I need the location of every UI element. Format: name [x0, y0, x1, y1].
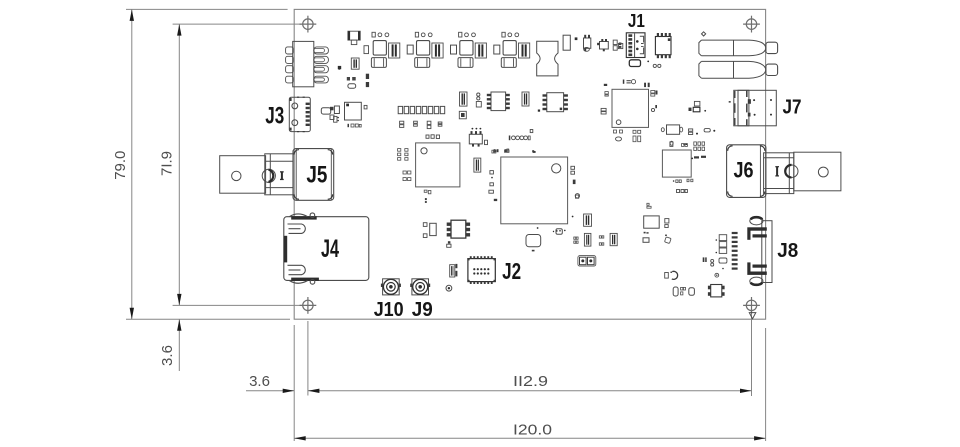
capacitor CT2: [414, 121, 418, 126]
part R10: [665, 234, 672, 243]
svg-text:J4: J4: [321, 235, 339, 263]
pads below U1: [424, 190, 431, 194]
pads left of J1: [619, 43, 622, 48]
resistor array RN1: [398, 106, 444, 113]
component below J1: [629, 60, 640, 67]
regulator U9 (SOT-23-5): [469, 128, 487, 147]
part R1: [364, 46, 369, 54]
dimension 3.6 left text: [159, 345, 176, 366]
transformer T1: [447, 220, 470, 238]
mark M4: [556, 230, 561, 232]
connector J5 plate and collar (BNC left): [220, 154, 293, 195]
pads P14: [476, 93, 481, 107]
pads P2: [347, 77, 356, 88]
pads below U2: [537, 227, 566, 234]
extension line below board-right edge: [765, 328, 767, 441]
pads left of U2: [489, 171, 497, 202]
dot below J1: [647, 61, 649, 63]
edge parts: [330, 107, 334, 120]
circle pad right of U4: [651, 108, 654, 111]
pads P3: [613, 40, 617, 50]
IC U8 (SOIC-8): [655, 33, 671, 58]
part R8: [576, 195, 579, 198]
bars B2: [644, 83, 650, 87]
mounting hole H1: [300, 16, 317, 33]
pads P8: [670, 141, 687, 145]
pads below U4 left: [614, 130, 623, 141]
capacitor C6: [584, 214, 592, 226]
dots pair: [711, 259, 714, 266]
label J2: [502, 258, 521, 284]
squares row below U3: [677, 190, 688, 193]
pads P12: [665, 219, 669, 228]
pads P9: [574, 237, 578, 243]
power cluster 3: [458, 32, 500, 67]
mark M1: [334, 116, 339, 122]
pads right of U4: [651, 91, 655, 97]
silk IO mark: [623, 80, 636, 84]
part R12: [644, 216, 660, 228]
capacitor CT3: [427, 121, 431, 128]
part R4: [321, 108, 330, 114]
svg-text:J3: J3: [265, 102, 284, 129]
pads above U1: [426, 135, 440, 139]
IC U6 (SOIC-8): [543, 93, 568, 112]
dimension 71.9 text: [159, 151, 176, 176]
part R13: [673, 287, 678, 296]
PCB board outline: [294, 9, 765, 319]
crystal Y1: [537, 41, 558, 76]
label J9: [412, 299, 433, 321]
connector CON1 (antenna jack): [699, 40, 778, 56]
dot near P1: [338, 67, 340, 69]
svg-text:I20.0: I20.0: [513, 422, 552, 439]
chip C2: [351, 40, 357, 45]
dot D3: [538, 110, 540, 112]
circle pad: [715, 273, 719, 277]
bar above U4: [604, 84, 607, 86]
dimension 120.0 line with arrows: [294, 436, 765, 440]
connector CON2 (antenna jack): [699, 61, 778, 78]
dimension 3.6 bottom line with arrow: [246, 389, 294, 393]
label J3: [265, 102, 284, 129]
marks M3: [643, 232, 649, 243]
pads P13: [681, 287, 686, 295]
extension line below board-left edge: [293, 325, 295, 441]
dot below U3: [691, 158, 693, 160]
connector J1: [626, 33, 645, 58]
marks 0I: [703, 257, 707, 262]
extension line below right mounting hole: [751, 313, 753, 396]
IC U2 (large center): [501, 157, 568, 224]
jumper JP1: [578, 256, 596, 267]
pads above U3: [670, 142, 705, 151]
transistor Q1: [584, 35, 591, 52]
part R5: [334, 106, 339, 114]
double pad below U4: [601, 108, 606, 114]
label J6: [734, 158, 754, 183]
extension line below left mounting hole: [307, 321, 309, 396]
svg-text:7I.9: 7I.9: [159, 151, 176, 176]
polarity mark below J8: [749, 313, 756, 319]
dimension 112.9 line with arrows: [308, 389, 752, 393]
pads below-left of J1: [653, 64, 661, 67]
connector J8 (HDMI): [732, 217, 772, 285]
silk marks row: [509, 136, 530, 141]
connector J7 (USB): [729, 90, 777, 126]
power cluster 4: [501, 32, 529, 67]
pads below U3: [673, 179, 693, 182]
transistor Q2: [597, 39, 608, 51]
pad bars right: [694, 156, 706, 159]
dimension 71.9 line with arrows: [177, 24, 181, 305]
inductor L2: [665, 271, 678, 279]
power cluster 2: [415, 32, 457, 67]
part R6: [364, 105, 367, 109]
connector J10 (coax jack): [381, 279, 401, 295]
capacitor CT4: [438, 122, 442, 126]
connector J6 body: [727, 145, 766, 198]
label J1: [628, 11, 645, 31]
label J7: [783, 96, 802, 118]
mounting hole H2: [743, 16, 760, 33]
part R14: [689, 288, 695, 296]
capacitor CT1: [400, 121, 404, 127]
label J5: [306, 162, 327, 189]
capacitor C10: [460, 92, 468, 106]
pads below T1: [447, 241, 451, 247]
pad grid left of U1: [398, 149, 408, 161]
mounting hole H4: [743, 297, 760, 314]
diamond fiducial: [702, 32, 706, 36]
connector J6 collar and plate (BNC right): [764, 152, 841, 193]
power cluster 1: [371, 32, 413, 67]
svg-text:J1: J1: [628, 11, 645, 31]
dimension 3.6 left line with arrow: [177, 319, 181, 371]
bars left of J2: [455, 264, 457, 277]
connector J4 (RJ45 ethernet): [284, 213, 369, 284]
dimension extension line bottom (board bottom edge, left): [126, 318, 290, 320]
part R2: [563, 35, 570, 50]
dimension extension line top (board top edge, left): [126, 8, 288, 10]
svg-text:3.6: 3.6: [159, 345, 176, 366]
svg-text:J8: J8: [777, 240, 798, 262]
svg-text:II2.9: II2.9: [513, 373, 548, 390]
dimension 79.0 text: [112, 151, 129, 180]
dimension 3.6 bottom text: [249, 373, 270, 390]
capacitor C9: [450, 265, 455, 277]
IC U4: [612, 89, 649, 127]
part R9: [526, 235, 541, 252]
dimension extension line top mounting-hole row: [173, 23, 302, 25]
pads P10: [599, 236, 604, 245]
stack right: [716, 235, 727, 270]
svg-text:3.6: 3.6: [249, 373, 270, 390]
svg-text:J6: J6: [734, 158, 754, 183]
dimension 112.9 text: [513, 373, 548, 390]
capacitor C7: [584, 233, 591, 246]
svg-text:J5: J5: [306, 162, 327, 189]
dot D2: [575, 37, 578, 40]
dimension 120.0 text: [513, 422, 552, 439]
pads above U2: [492, 150, 536, 153]
via V1: [446, 285, 452, 291]
inductor L1: [661, 125, 682, 134]
pads P6: [532, 150, 534, 152]
connector J2 (header): [467, 256, 495, 284]
chip C1: [348, 31, 360, 40]
dimension 79.0 line with arrows: [130, 9, 134, 319]
dot D1: [338, 66, 341, 69]
connector J9 (coax jack): [410, 279, 430, 295]
pad grid 2 left of U1: [403, 171, 411, 181]
pads right of U2: [571, 166, 580, 217]
IC U5 (SOIC-8): [487, 92, 510, 111]
part R11: [423, 223, 436, 238]
IC U7: [345, 102, 362, 120]
connector J5 body: [293, 149, 334, 201]
bars B1: [366, 74, 369, 87]
label J10: [374, 299, 404, 321]
dimension extension line bottom mounting-hole row: [173, 304, 302, 306]
capacitor C8: [610, 233, 617, 245]
connector P1 (8-pin edge header): [286, 41, 329, 86]
part R7: [530, 130, 533, 133]
svg-text:J9: J9: [412, 299, 433, 321]
IC U1: [416, 143, 460, 187]
pads below U4 right: [633, 130, 641, 141]
marks M2: [348, 124, 362, 127]
svg-text:J7: J7: [783, 96, 802, 118]
IC U3: [662, 150, 691, 177]
label J4: [321, 235, 339, 263]
capacitor C5: [522, 92, 529, 106]
IC U10 (4-pin): [708, 285, 725, 297]
pads P5: [505, 149, 509, 152]
pads P11: [647, 203, 651, 208]
part R3: [618, 44, 622, 49]
svg-text:79.0: 79.0: [112, 151, 129, 180]
connector J3 (micro-USB): [289, 97, 310, 133]
bars below U1: [425, 198, 427, 203]
label J8: [777, 240, 798, 262]
capacitor C3: [351, 58, 359, 69]
pads P4: [494, 149, 499, 152]
mounting hole H3: [300, 297, 317, 314]
svg-text:J10: J10: [374, 299, 404, 321]
pads P7: [689, 129, 716, 135]
bars B3: [655, 91, 657, 109]
pads left of U4: [605, 92, 608, 97]
capacitor C4: [474, 158, 481, 172]
part R15: [459, 111, 466, 119]
svg-text:J2: J2: [502, 258, 521, 284]
squares SQ1: [689, 101, 707, 111]
